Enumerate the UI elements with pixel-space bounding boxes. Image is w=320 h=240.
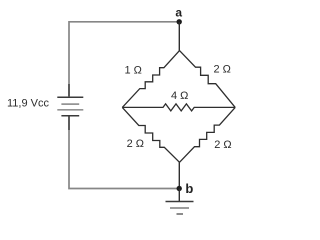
svg-text:1 Ω: 1 Ω	[125, 64, 142, 76]
svg-text:2 Ω: 2 Ω	[127, 138, 144, 150]
wire dark stub below battery	[68, 116, 70, 130]
node b junction dot	[177, 186, 182, 191]
wire bottom horizontal from battery to node b	[69, 116, 179, 189]
wire stub node b to ground	[178, 189, 180, 202]
node a junction dot	[177, 19, 182, 24]
resistor 2 Ohm top-right branch	[180, 51, 236, 108]
resistor 2 Ohm bottom-left branch	[122, 107, 179, 162]
svg-text:b: b	[185, 181, 193, 196]
resistor 2 Ohm bottom-right branch	[180, 107, 236, 162]
svg-text:2 Ω: 2 Ω	[214, 64, 231, 76]
svg-text:2 Ω: 2 Ω	[214, 139, 231, 151]
svg-text:4 Ω: 4 Ω	[171, 90, 188, 102]
wire stub node a to bridge apex	[178, 22, 180, 51]
wire top horizontal from battery to node a	[69, 22, 179, 96]
svg-text:11,9 Vcc: 11,9 Vcc	[7, 98, 49, 110]
resistor 1 Ohm top-left branch	[122, 51, 179, 108]
wire stub bridge bottom apex to node b	[178, 162, 180, 188]
ground	[166, 202, 194, 215]
battery V 11,9 Vcc	[57, 97, 83, 116]
resistor 4 Ohm middle branch	[122, 104, 235, 111]
svg-text:a: a	[175, 5, 182, 19]
wire dark stub above battery	[68, 84, 70, 97]
